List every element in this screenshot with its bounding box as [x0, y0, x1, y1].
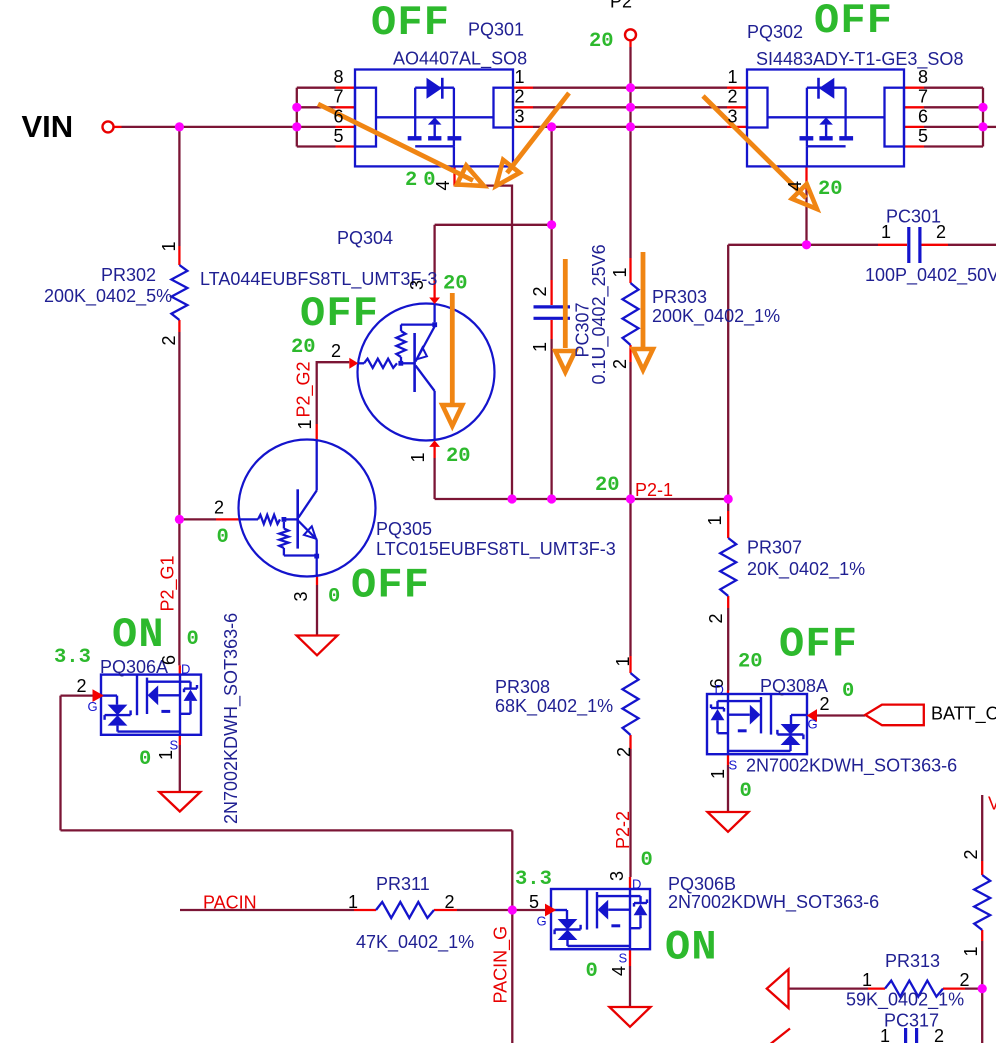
net flag BATT_OC: [865, 705, 924, 726]
wire PR311 pin2 to junction: [457, 909, 512, 911]
svg-text:LTC015EUBFS8TL_UMT3F-3: LTC015EUBFS8TL_UMT3F-3: [376, 539, 616, 560]
pin stubs PQ306A: [179, 665, 181, 674]
svg-text:7: 7: [333, 87, 343, 107]
terminal circle VIN: [103, 121, 114, 132]
svg-text:VC: VC: [988, 794, 996, 814]
junction rail x728: [724, 494, 733, 503]
svg-text:3: 3: [607, 871, 627, 881]
PQ308A internal symbol mirrored: [711, 694, 807, 754]
wire PR313 pin2 to junction: [965, 987, 982, 989]
svg-text:2: 2: [936, 222, 946, 242]
PQ302 right pin box: [885, 88, 905, 147]
svg-text:PQ304: PQ304: [337, 228, 393, 248]
svg-text:1: 1: [610, 267, 630, 277]
svg-text:2: 2: [331, 341, 341, 361]
wire PQ306A gate horizontal: [61, 694, 93, 696]
capacitor PC317 plates: [904, 1028, 907, 1043]
resistor PR307 zigzag: [720, 538, 736, 596]
svg-text:20: 20: [595, 474, 620, 497]
svg-text:68K_0402_1%: 68K_0402_1%: [495, 696, 613, 717]
svg-text:0: 0: [641, 849, 653, 872]
ground below PQ306B: [610, 1007, 651, 1027]
junction PQ301 rail pin7: [292, 103, 301, 112]
wire PC301 row right to edge: [948, 244, 996, 246]
pin stubs PQ302 right: [904, 87, 924, 89]
svg-text:0: 0: [740, 780, 752, 803]
wire PQ301 left pin7 row: [297, 106, 336, 108]
junction PR313 right: [978, 984, 987, 993]
svg-text:2: 2: [515, 87, 525, 107]
wire P2 vertical upper: [629, 47, 631, 258]
resistor PR313 zigzag: [885, 981, 943, 997]
svg-text:20: 20: [405, 169, 442, 192]
pin marker PQ304 pin3: [429, 298, 440, 305]
svg-text:0: 0: [187, 628, 199, 651]
wire long bottom horizontal: [61, 829, 513, 831]
svg-text:1: 1: [408, 452, 428, 462]
wire PQ301 pin4 to rail: [455, 186, 513, 499]
svg-text:2: 2: [706, 613, 726, 623]
wire PQ306A gate vertical down: [59, 696, 61, 831]
wire row6 to right edge: [983, 126, 996, 128]
svg-text:2N7002KDWH_SOT363-6: 2N7002KDWH_SOT363-6: [668, 892, 879, 913]
svg-text:1: 1: [515, 67, 525, 87]
svg-text:ON: ON: [665, 924, 718, 972]
wire PQ305 base horizontal: [179, 518, 216, 520]
pin stubs PC307: [550, 280, 552, 305]
svg-text:2N7002KDWH_SOT363-6: 2N7002KDWH_SOT363-6: [746, 756, 957, 777]
svg-text:ON: ON: [112, 611, 165, 659]
wire PQ301 left rail vertical: [296, 88, 298, 147]
pin stubs PR302: [178, 246, 180, 265]
svg-text:P2_G2: P2_G2: [294, 361, 315, 417]
wire PACIN_G vertical: [511, 830, 513, 1043]
svg-text:0: 0: [139, 748, 151, 771]
svg-text:3.3: 3.3: [54, 646, 91, 669]
transistor PQ306A body: [101, 675, 201, 735]
transistor PQ308A body: [707, 694, 807, 754]
pin stubs PQ301 right: [513, 87, 533, 89]
svg-text:100P_0402_50V8: 100P_0402_50V8: [865, 265, 996, 286]
pin stubs PQ302 left: [727, 87, 747, 89]
wire bus row2 PQ301 pin2 to PQ302 pin2: [533, 106, 727, 108]
svg-text:20: 20: [443, 273, 468, 296]
ground below PQ306A: [159, 792, 200, 812]
svg-text:2: 2: [961, 849, 981, 859]
svg-text:1: 1: [295, 419, 315, 429]
junction PC301 node: [802, 240, 811, 249]
svg-text:8: 8: [333, 67, 343, 87]
svg-text:BATT_OC: BATT_OC: [931, 704, 996, 725]
svg-text:PR313: PR313: [885, 951, 940, 971]
wire PC301 row left: [728, 244, 878, 246]
svg-text:P2_G1: P2_G1: [158, 555, 179, 611]
wire VIN horizontal to PQ301: [122, 126, 336, 128]
pin marker PQ308A gate: [807, 709, 817, 722]
junction P2 row2: [626, 103, 635, 112]
pin stubs PQ308A: [727, 691, 729, 695]
svg-text:5: 5: [529, 892, 539, 912]
capacitor PC307 plates: [534, 305, 571, 308]
svg-text:PQ301: PQ301: [468, 20, 524, 40]
junction rail x552: [547, 494, 556, 503]
svg-text:D: D: [632, 877, 641, 892]
PQ302 left pin box: [747, 88, 768, 128]
svg-text:7: 7: [918, 87, 928, 107]
svg-text:2: 2: [610, 359, 630, 369]
resistor PR303 zigzag: [623, 283, 639, 345]
svg-text:PR302: PR302: [101, 265, 156, 285]
wire bus row1 PQ301 pin1 to PQ302 pin1: [533, 87, 727, 89]
svg-text:2: 2: [159, 335, 179, 345]
pin stubs PC301: [878, 244, 907, 246]
pin marker PQ306B gate: [545, 904, 556, 917]
resistor PR312 zigzag right: [974, 875, 990, 930]
pin stubs PR308: [629, 656, 631, 673]
wire PQ305 pin1 up corner: [317, 362, 350, 424]
svg-text:LTA044EUBFS8TL_UMT3F-3: LTA044EUBFS8TL_UMT3F-3: [200, 269, 437, 290]
svg-text:5: 5: [333, 126, 343, 146]
svg-text:2: 2: [820, 694, 830, 714]
wire PR307 to PQ308A drain: [727, 608, 729, 691]
pin stub VIN: [114, 126, 122, 128]
svg-text:0.1U_0402_25V6: 0.1U_0402_25V6: [589, 244, 610, 384]
svg-text:PR311: PR311: [376, 874, 430, 894]
orange arrow PQ304: [450, 293, 455, 403]
svg-text:G: G: [808, 717, 818, 732]
svg-text:20: 20: [738, 651, 763, 674]
svg-text:P2-2: P2-2: [613, 811, 633, 849]
pin stubs PQ301 left: [336, 87, 356, 89]
pin stubs PR303: [629, 258, 631, 283]
wire PR302 top from VIN row: [178, 127, 180, 246]
svg-text:OFF: OFF: [371, 0, 450, 47]
wire right net vertical upper: [981, 795, 983, 861]
svg-text:PACIN: PACIN: [203, 893, 257, 913]
resistor PR308 zigzag: [623, 673, 639, 735]
wire PQ305 pin3 to ground: [316, 585, 318, 636]
net flag PC317 left partial: [766, 1029, 790, 1043]
svg-text:S: S: [729, 758, 738, 773]
svg-text:2: 2: [960, 970, 970, 990]
wire PQ304 pin1 to rail: [433, 458, 435, 499]
wire right net vertical lower: [981, 941, 983, 1043]
svg-text:SI4483ADY-T1-GE3_SO8: SI4483ADY-T1-GE3_SO8: [756, 49, 963, 70]
svg-text:PC317: PC317: [884, 1011, 939, 1031]
wire node x552 row3 down to PC307 node: [550, 127, 552, 225]
pin marker PQ306A gate: [93, 689, 104, 702]
transistor PQ304 circle: [358, 304, 495, 441]
svg-text:8: 8: [918, 67, 928, 87]
pin stub PQ304 pin3: [433, 281, 435, 298]
wire junction to PQ306B gate: [512, 909, 545, 911]
orange arrow into PQ301 pin4 from left: [318, 104, 473, 181]
transistor PQ302 body: [747, 70, 904, 167]
ground below PQ308A: [708, 812, 749, 832]
PQ306A internal symbol: [101, 675, 197, 735]
pin stubs PR312 right resistor: [981, 861, 983, 875]
resistor PR302 zigzag: [171, 265, 187, 320]
PQ306B internal symbol: [551, 889, 647, 949]
svg-text:1: 1: [961, 946, 981, 956]
wire PQ302 right rail vertical: [982, 88, 984, 147]
resistor PR311 zigzag: [376, 902, 434, 918]
svg-text:5: 5: [918, 126, 928, 146]
svg-text:OFF: OFF: [779, 621, 858, 669]
pin stub PQ302 pin4: [805, 166, 807, 190]
pin stubs PQ306B: [629, 877, 631, 889]
junction PACIN PQ306B gate: [508, 905, 517, 914]
svg-text:0: 0: [217, 526, 229, 549]
pin marker PQ304 pin1: [429, 440, 440, 447]
svg-text:2: 2: [214, 498, 224, 518]
svg-text:PQ305: PQ305: [376, 519, 432, 539]
junction P2 row1: [626, 83, 635, 92]
wire PQ304 pin3 horizontal: [435, 224, 552, 226]
wire rail P2-1 horizontal: [435, 498, 729, 500]
svg-text:47K_0402_1%: 47K_0402_1%: [356, 932, 474, 953]
svg-text:2: 2: [77, 676, 87, 696]
wire PQ302 pin4 down: [805, 190, 807, 245]
svg-text:1: 1: [613, 656, 633, 666]
PQ302 gate line: [768, 116, 885, 118]
svg-text:20: 20: [818, 178, 843, 201]
svg-text:S: S: [619, 951, 628, 966]
wire rail to PR307: [727, 499, 729, 511]
svg-text:20: 20: [291, 336, 316, 359]
junction VIN branch: [175, 122, 184, 131]
svg-text:PQ306A: PQ306A: [100, 657, 168, 677]
wire P2 vertical PR308 to PQ306B: [629, 749, 631, 877]
orange arrow into PQ301 pin4 from right: [507, 93, 569, 173]
wire PR302 bottom to PQ306A drain: [178, 332, 180, 665]
PQ301 right pin box: [494, 88, 514, 128]
svg-text:3: 3: [728, 106, 738, 126]
svg-text:PR307: PR307: [747, 538, 802, 558]
svg-text:6: 6: [333, 106, 343, 126]
svg-text:2: 2: [728, 87, 738, 107]
PQ301 mosfet symbol: [408, 78, 462, 167]
transistor PQ305 circle: [239, 440, 376, 577]
svg-text:6: 6: [918, 106, 928, 126]
svg-text:1: 1: [862, 970, 872, 990]
svg-text:VIN: VIN: [22, 109, 74, 144]
svg-text:P2-1: P2-1: [635, 480, 673, 500]
pin stub PQ305 pin1: [316, 424, 318, 440]
svg-text:6: 6: [159, 655, 179, 665]
junction x552 row3: [547, 122, 556, 131]
svg-text:2: 2: [445, 892, 455, 912]
PQ305 internal symbol: [240, 440, 320, 577]
transistor PQ306B body: [551, 889, 650, 949]
svg-text:D: D: [181, 662, 190, 677]
wire PQ301 left pin8 row: [297, 87, 336, 89]
terminal circle P2: [625, 29, 636, 40]
orange arrow PC307: [563, 259, 568, 348]
junction rail x512: [507, 494, 516, 503]
svg-text:0: 0: [842, 680, 854, 703]
svg-text:3: 3: [515, 106, 525, 126]
wire PACIN horizontal: [180, 909, 354, 911]
svg-text:1: 1: [530, 342, 550, 352]
junction PQ301 rail pin6: [292, 122, 301, 131]
wire PQ308A source to ground: [727, 765, 729, 812]
wire PC307 top lead: [550, 225, 552, 280]
pin marker PQ304 pin2: [349, 358, 358, 369]
wire PQ301 left pin5 row: [297, 145, 336, 147]
junction PQ302 rail pin7: [978, 103, 987, 112]
pin stub PQ305 pin3: [316, 577, 318, 586]
PQ302 mosfet symbol mirrored: [800, 78, 854, 167]
svg-text:2: 2: [614, 747, 634, 757]
svg-text:PQ302: PQ302: [747, 22, 803, 42]
svg-text:200K_0402_5%: 200K_0402_5%: [44, 286, 172, 307]
svg-text:D: D: [715, 682, 724, 697]
svg-text:S: S: [170, 738, 179, 753]
svg-text:59K_0402_1%: 59K_0402_1%: [846, 990, 964, 1011]
svg-text:4: 4: [609, 966, 629, 976]
wire PQ302 right pin6 row: [924, 126, 983, 128]
wire PQ306A source to ground: [179, 745, 181, 792]
pin stubs PR313: [868, 987, 885, 989]
svg-text:0: 0: [586, 960, 598, 983]
wire P2 vertical PR303 to rail: [629, 362, 631, 656]
svg-text:1: 1: [728, 67, 738, 87]
svg-text:2: 2: [934, 1026, 944, 1043]
pin stubs PR307: [727, 511, 729, 538]
svg-text:PC301: PC301: [886, 207, 941, 227]
svg-text:3: 3: [291, 591, 311, 601]
svg-text:2: 2: [530, 286, 550, 296]
svg-text:P2: P2: [610, 0, 632, 12]
svg-text:3: 3: [407, 280, 427, 290]
junction PQ304 pin3 node: [547, 220, 556, 229]
svg-text:200K_0402_1%: 200K_0402_1%: [652, 306, 780, 327]
wire PC307 bottom lead to rail: [550, 339, 552, 499]
svg-text:1: 1: [348, 892, 358, 912]
svg-text:OFF: OFF: [300, 290, 379, 338]
svg-text:20: 20: [446, 445, 471, 468]
svg-text:1: 1: [705, 515, 725, 525]
junction PQ302 rail pin6: [978, 122, 987, 131]
svg-text:3.3: 3.3: [515, 868, 552, 891]
svg-text:PQ306B: PQ306B: [668, 874, 736, 894]
orange arrow through PQ302 pin4: [703, 96, 806, 198]
ground below PQ305: [297, 636, 338, 656]
svg-text:OFF: OFF: [351, 562, 430, 610]
orange arrow PR303: [641, 252, 646, 347]
wire PQ302 right pin7 row: [924, 106, 983, 108]
wire PQ308A gate to BATT_OC flag: [817, 714, 865, 716]
junction P2 row3: [626, 122, 635, 131]
junction rail P2: [626, 494, 635, 503]
svg-text:1: 1: [881, 222, 891, 242]
pin stub PQ305 pin2: [216, 518, 240, 520]
svg-text:2N7002KDWH_SOT363-6: 2N7002KDWH_SOT363-6: [221, 613, 242, 824]
junction PQ305 base: [175, 515, 184, 524]
svg-text:OFF: OFF: [814, 0, 893, 45]
svg-text:4: 4: [785, 181, 805, 191]
svg-text:20: 20: [589, 30, 614, 53]
PQ304 internal symbol: [358, 304, 437, 440]
svg-text:1: 1: [880, 1026, 890, 1043]
wire x728 PC301 node down to rail: [727, 245, 729, 499]
transistor PQ301 body: [355, 70, 513, 167]
wire PQ306B source to ground: [629, 966, 631, 1007]
svg-text:PQ308A: PQ308A: [760, 676, 828, 696]
svg-text:PR303: PR303: [652, 287, 707, 307]
svg-text:1: 1: [159, 241, 179, 251]
pin stub PQ301 pin4: [453, 166, 455, 185]
PQ301 gate line: [376, 116, 494, 118]
wire flag to PR313: [789, 987, 869, 989]
wire PQ304 pin3 vertical: [433, 225, 435, 281]
svg-text:20K_0402_1%: 20K_0402_1%: [747, 559, 865, 580]
svg-text:0: 0: [328, 586, 340, 609]
pin stub P2 connector: [629, 40, 631, 47]
capacitor PC301 plates: [907, 227, 910, 263]
wire bus row3 PQ301 pin3 to PQ302 pin3: [533, 126, 727, 128]
wire PQ302 right pin5 row: [924, 145, 983, 147]
pin stubs PR311: [354, 909, 376, 911]
pin stub PQ304 pin1: [433, 447, 435, 459]
svg-text:G: G: [537, 914, 547, 929]
net flag PR313 left: [767, 969, 789, 1008]
svg-text:G: G: [88, 699, 98, 714]
svg-text:AO4407AL_SO8: AO4407AL_SO8: [393, 49, 527, 70]
svg-text:PACIN_G: PACIN_G: [491, 926, 512, 1004]
svg-text:PR308: PR308: [495, 677, 550, 697]
PQ301 left pin box: [355, 88, 376, 147]
svg-text:1: 1: [708, 769, 728, 779]
wire PQ302 right pin8 row: [924, 87, 983, 89]
